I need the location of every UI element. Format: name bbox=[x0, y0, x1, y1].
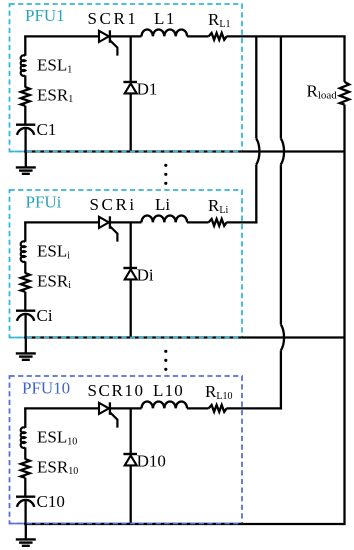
svg-text:PFUi: PFUi bbox=[26, 193, 62, 212]
svg-text:ESR1: ESR1 bbox=[37, 85, 73, 105]
svg-text:SCR1: SCR1 bbox=[88, 9, 139, 28]
svg-text:SCR10: SCR10 bbox=[88, 381, 145, 400]
svg-text:Li: Li bbox=[155, 195, 170, 214]
svg-text:PFU10: PFU10 bbox=[22, 379, 70, 398]
svg-text:D10: D10 bbox=[137, 451, 166, 470]
svg-text:C10: C10 bbox=[37, 492, 65, 511]
svg-text:PFU1: PFU1 bbox=[25, 6, 65, 25]
svg-text:SCRi: SCRi bbox=[90, 195, 137, 214]
svg-text:D1: D1 bbox=[137, 79, 158, 98]
svg-text:Ci: Ci bbox=[37, 306, 53, 325]
svg-text:ESLi: ESLi bbox=[37, 242, 70, 262]
svg-text:Di: Di bbox=[137, 265, 154, 284]
svg-text:L1: L1 bbox=[154, 9, 176, 28]
svg-text:ESRi: ESRi bbox=[37, 271, 71, 291]
svg-text:ESL1: ESL1 bbox=[37, 56, 72, 76]
svg-text:C1: C1 bbox=[37, 120, 57, 139]
svg-text:L10: L10 bbox=[153, 381, 184, 400]
